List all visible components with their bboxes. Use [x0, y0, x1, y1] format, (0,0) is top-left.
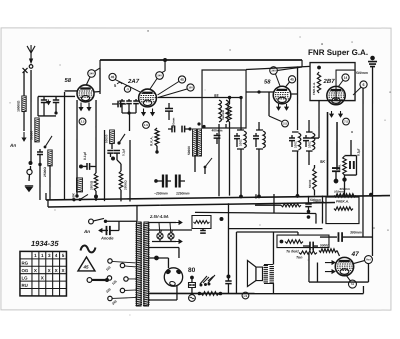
circle 14 [342, 74, 349, 81]
svg-text:5000Ω: 5000Ω [320, 244, 330, 248]
padder cap A [162, 174, 164, 187]
triangle 45 [78, 257, 95, 271]
wire bottom bus [148, 292, 363, 294]
bias circle 7.5 [343, 118, 350, 125]
svg-text:58: 58 [264, 79, 271, 86]
svg-text:3: 3 [48, 253, 51, 258]
circle 45 a [109, 73, 116, 80]
wire cluster bottom [38, 115, 56, 117]
capacitor tuning C1 [43, 96, 45, 100]
tube V6 47 [335, 257, 353, 275]
svg-text:2500Ω: 2500Ω [89, 180, 93, 190]
capacitor C pad [39, 149, 41, 152]
ground ant [25, 185, 33, 187]
svg-text:80: 80 [188, 267, 196, 274]
tube V2 2A7 [139, 89, 157, 107]
wire to volume pot [30, 112, 32, 163]
mains squiggle [80, 246, 95, 253]
filament line 3 [148, 246, 179, 248]
svg-text:45: 45 [290, 77, 294, 81]
cathode arrows V3 [278, 104, 280, 110]
hum pot box [192, 215, 211, 228]
bias circle 1.5 [143, 122, 150, 129]
svg-text:7.5: 7.5 [344, 120, 348, 124]
svg-text:55: 55 [214, 93, 219, 98]
svg-text:1.5: 1.5 [144, 123, 148, 127]
svg-text:5: 5 [62, 253, 65, 258]
tube V3 58 [273, 86, 291, 104]
svg-text:Yel: Yel [351, 283, 355, 286]
svg-text:PREK.A.: PREK.A. [336, 200, 349, 204]
oscillator coil [219, 100, 221, 122]
svg-text:240: 240 [271, 69, 276, 72]
svg-text:R.K.A.: R.K.A. [150, 136, 154, 146]
resistor ant shunt [22, 96, 26, 112]
wire trimmer bottom [122, 112, 136, 114]
svg-text:50000: 50000 [30, 131, 34, 140]
svg-text:2.5: 2.5 [283, 122, 287, 126]
filament line 1 [148, 221, 176, 223]
resistor 50000 bar [110, 130, 115, 144]
resistor 2500 [94, 173, 98, 191]
svg-text:0.1µf: 0.1µf [122, 149, 126, 156]
wire top B+ bus [100, 59, 302, 61]
capacitor pair mid [111, 143, 113, 149]
svg-text:50000: 50000 [308, 179, 312, 188]
wire mid bottom joins [314, 165, 316, 168]
antenna [30, 53, 32, 62]
resistor FNR KA [317, 66, 321, 70]
volume pot [27, 169, 32, 174]
circle Red [364, 256, 372, 264]
wire osc anode drop [228, 96, 231, 99]
coupling cap 300mm [320, 236, 337, 238]
wire down to bus [39, 164, 41, 200]
svg-text:45: 45 [82, 264, 89, 269]
wire cap drop [371, 237, 373, 256]
tube V5 80 rectifier [164, 268, 182, 286]
wire V2 plate right [158, 96, 241, 98]
svg-text:240: 240 [157, 74, 162, 77]
svg-text:1: 1 [41, 253, 44, 258]
wire bus tick down [136, 206, 138, 222]
antenna terminal top right [370, 56, 375, 61]
svg-text:FNR Super G.A.: FNR Super G.A. [308, 48, 368, 57]
circle LS [242, 292, 249, 299]
capacitor 0.1 under V1 [79, 164, 83, 168]
wire circle6 drop [362, 88, 364, 237]
mains terminal [89, 219, 94, 224]
svg-text:45: 45 [111, 75, 115, 79]
bias circle 2.5 [79, 118, 86, 125]
svg-text:47: 47 [350, 251, 359, 258]
wire V1 left leads [65, 90, 78, 92]
capacitor 100mm bus [305, 203, 311, 205]
cathode arrows V4 [331, 111, 333, 117]
grid resistor cluster [309, 242, 311, 251]
wire column 104 [103, 130, 105, 201]
svg-text:~250mm: ~250mm [154, 191, 168, 195]
capacitor pair under V2 [171, 126, 173, 133]
wire V1 grid return [95, 100, 97, 173]
svg-text:Red: Red [366, 258, 371, 261]
svg-text:14: 14 [344, 76, 348, 80]
wire bus drop to 2A7 [164, 60, 166, 71]
switch padder [205, 158, 212, 167]
svg-text:300mm: 300mm [350, 231, 362, 235]
resistor in box [334, 207, 353, 210]
HT junction dot [154, 256, 159, 261]
switch on bus [80, 194, 88, 199]
wire tick 256 [255, 194, 257, 198]
svg-text:FNR.K.A.: FNR.K.A. [312, 82, 316, 95]
resistor phono [201, 292, 219, 296]
resistor bus dropper [334, 194, 356, 197]
svg-text:1001: 1001 [294, 141, 298, 148]
arrow An down [23, 132, 25, 141]
wire phono column [227, 203, 229, 277]
power transformer [136, 222, 141, 306]
capacitor coupling C [117, 101, 119, 108]
svg-text:50000: 50000 [187, 146, 191, 155]
speaker box [235, 232, 237, 293]
svg-text:45: 45 [180, 78, 184, 82]
svg-text:4: 4 [55, 253, 58, 258]
circle 45 V3 [288, 76, 295, 83]
grid cap circle 240 [88, 70, 96, 78]
svg-text:Ton: Ton [296, 256, 303, 260]
wire lower bus A [46, 195, 390, 200]
svg-text:400mm: 400mm [212, 129, 223, 133]
IFT2 unit B [305, 135, 307, 138]
grid cap circle 240 V2 [156, 72, 164, 80]
circle 100 [187, 84, 194, 91]
resistor RKA [155, 128, 159, 146]
svg-text:500mm: 500mm [310, 198, 321, 202]
trimmer bank caps [121, 99, 123, 101]
wire antenna loop left [23, 72, 25, 96]
junction dot hum [219, 217, 223, 221]
tube V1 58 [77, 85, 94, 102]
dots junction [197, 122, 200, 125]
capacitor 500mm right [336, 122, 338, 167]
svg-text:50K: 50K [71, 192, 75, 199]
svg-text:58: 58 [65, 77, 72, 84]
wire V3 bracket [268, 92, 270, 116]
svg-text:100: 100 [188, 86, 193, 89]
svg-text:1001: 1001 [239, 139, 243, 146]
svg-text:50000: 50000 [105, 134, 109, 143]
resistor vol box [76, 178, 82, 192]
svg-text:0.1µf: 0.1µf [357, 148, 361, 156]
svg-text:LG: LG [21, 275, 28, 280]
padder cap B [175, 174, 177, 187]
resistor varied [228, 104, 232, 122]
capacitor 240mm [168, 103, 170, 109]
svg-text:5K.A.: 5K.A. [337, 164, 341, 172]
cathode arrows V1 [80, 102, 82, 110]
svg-text:2B7: 2B7 [323, 78, 336, 85]
pilot lamps [157, 233, 163, 239]
tube V4 2B7 [327, 86, 345, 104]
svg-text:An: An [83, 229, 90, 234]
resistor under bus [281, 204, 301, 207]
resistor 250K [119, 171, 123, 190]
resistor double 50000 [193, 129, 197, 156]
wire Red drop [367, 264, 369, 283]
svg-text:100mm: 100mm [334, 190, 344, 194]
wire rect cathode [148, 299, 177, 301]
svg-text:OG: OG [21, 268, 28, 273]
wire IFT2 leads [296, 151, 298, 196]
circle 45 b [178, 76, 185, 83]
voltage selector [108, 259, 112, 263]
switch band 2 [119, 134, 125, 143]
wire grid line tube1 [38, 95, 75, 97]
wire lower bus B [48, 202, 335, 207]
wire HT to rectifier [167, 258, 169, 268]
svg-text:2500Ω: 2500Ω [43, 167, 47, 177]
wire IFT1 leads [240, 98, 242, 131]
output box right [326, 197, 359, 224]
capacitor hum [202, 229, 204, 231]
wire tick 274 [273, 194, 275, 213]
capacitor 400mm [216, 133, 218, 136]
terminal bottom left [87, 278, 92, 283]
wire bus right drop [301, 60, 303, 67]
svg-text:RU: RU [21, 283, 27, 288]
svg-text:500mm: 500mm [356, 71, 368, 75]
wire bus drop right [321, 196, 323, 224]
phono contacts [200, 276, 207, 284]
arrows into 47 [325, 262, 335, 264]
fuse [190, 276, 194, 280]
output transformer [263, 266, 274, 283]
capacitor phono [226, 275, 230, 279]
arrow An mains [99, 229, 108, 231]
svg-text:Anode: Anode [100, 235, 114, 240]
wire osc column [129, 140, 131, 202]
wire mains to transformer [105, 220, 137, 222]
resistor R ant coil [35, 118, 39, 142]
wire antenna loop right [30, 70, 32, 112]
wire bus risers [45, 193, 47, 200]
svg-text:240: 240 [89, 72, 94, 75]
svg-text:.1: .1 [126, 87, 129, 91]
svg-text:250KΩ: 250KΩ [123, 180, 127, 190]
circle 6 [360, 81, 367, 88]
wire V1 right lead [94, 90, 100, 93]
svg-text:10000Ω: 10000Ω [17, 100, 21, 112]
svg-text:6: 6 [363, 83, 365, 87]
wire heater feed right [228, 228, 322, 230]
wire osc bottom [194, 156, 196, 172]
IFT1 unit A [236, 133, 238, 136]
switch mains [93, 218, 104, 221]
wire B+ feed line [195, 212, 316, 213]
IFT1 unit B [255, 133, 257, 136]
speaker cone [247, 261, 256, 287]
switch wave band [45, 136, 52, 147]
svg-text:An: An [9, 143, 16, 148]
svg-text:2.5: 2.5 [81, 119, 85, 123]
wire antenna right drop [371, 67, 373, 238]
wire col 337 [336, 122, 338, 170]
field coil box [277, 235, 329, 248]
wire inner bus [246, 66, 310, 69]
wire bus left drop [99, 60, 101, 68]
svg-text:1934-35: 1934-35 [31, 239, 59, 248]
bias circle 2.5 V3 [282, 120, 289, 127]
svg-text:1250mm: 1250mm [176, 191, 190, 195]
resistor 5000 [319, 249, 337, 253]
wire V1 screen down [76, 100, 78, 196]
svg-text:To field: To field [286, 250, 299, 254]
wire arrow tails [316, 263, 318, 283]
wire grid loop [308, 253, 310, 283]
circle .1 [124, 86, 130, 92]
svg-text:1: 1 [34, 253, 37, 258]
oscillator box [202, 70, 246, 128]
resistor R cathode1 [48, 150, 52, 166]
2B7 box [310, 63, 355, 101]
capacitor mains [102, 229, 106, 231]
station table [20, 251, 67, 296]
wire V3 plate [292, 93, 298, 95]
svg-text:1001: 1001 [308, 141, 312, 148]
wire thick column [326, 112, 328, 196]
phono switch right of 80 [203, 277, 209, 283]
junction dot bus [163, 58, 167, 62]
wire V4 bottom drop [318, 101, 320, 138]
circle Yel [348, 280, 356, 288]
RC network 5K [350, 140, 352, 156]
wire output to bus [362, 286, 364, 294]
filament line 2 [148, 229, 191, 231]
wire osc coil drop [218, 128, 220, 196]
svg-text:0.1µf: 0.1µf [83, 151, 87, 160]
resistor 5K [313, 168, 317, 190]
grid cap circle 240 V3 [270, 67, 278, 75]
IFT2 unit A [291, 135, 293, 138]
wire V3 left lead [246, 91, 275, 93]
capacitor trimmer C2 [55, 96, 57, 100]
filament return [152, 240, 176, 242]
svg-text:RG: RG [21, 261, 28, 266]
scan specks [147, 30, 148, 31]
wire speaker leads [272, 232, 274, 265]
cathode arrows V2 [143, 108, 145, 115]
svg-text:LS: LS [244, 294, 248, 298]
svg-text:2.5V-4.9A: 2.5V-4.9A [149, 214, 169, 219]
svg-text:2A7: 2A7 [127, 78, 140, 85]
